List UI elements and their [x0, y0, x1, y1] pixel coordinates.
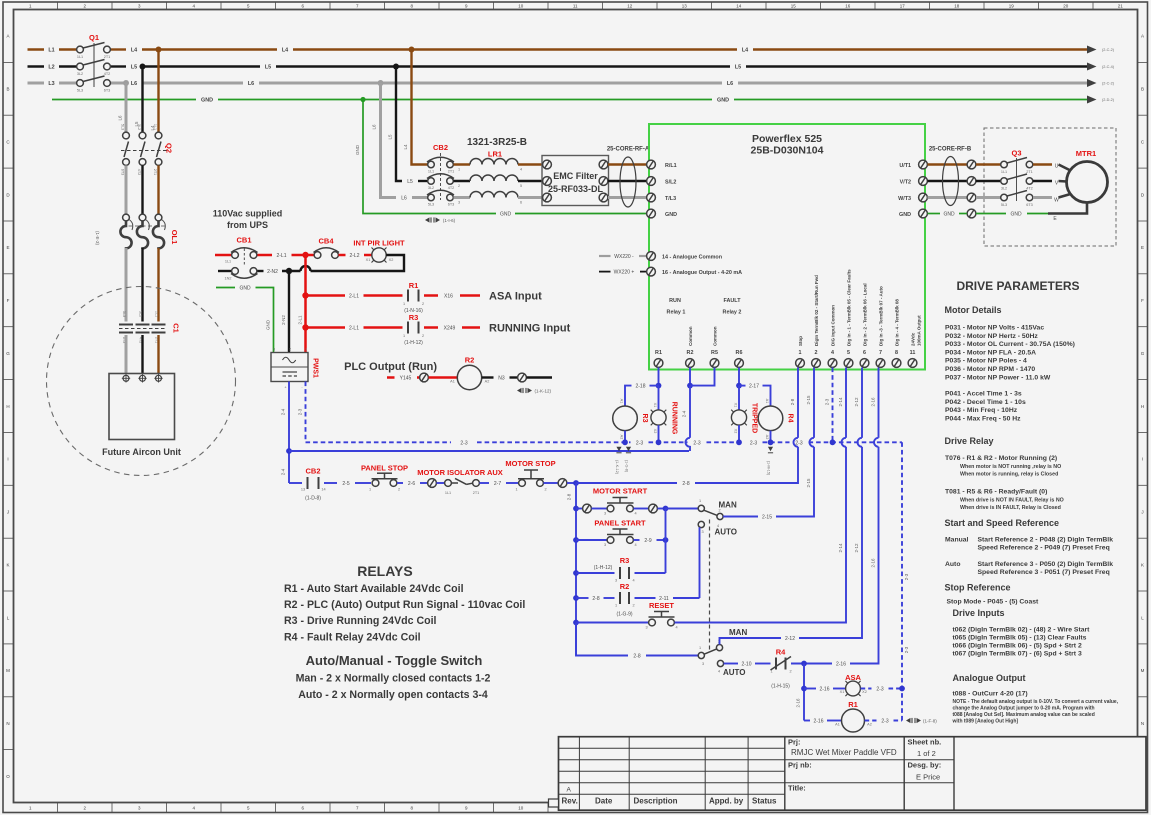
wire 2-15 to drive DigIn 02 — [723, 516, 758, 518]
pushbutton RESET — [576, 601, 678, 630]
svg-text:L5: L5 — [735, 65, 741, 71]
svg-text:X2: X2 — [862, 690, 867, 694]
svg-text:25-CORE-RF-B: 25-CORE-RF-B — [929, 147, 972, 153]
svg-text:RUNNING Input: RUNNING Input — [489, 323, 571, 335]
svg-text:Speed Reference 2 - P049 (7) P: Speed Reference 2 - P049 (7) Preset Freq — [978, 545, 1110, 552]
drive terminal R2 — [686, 326, 695, 367]
svg-text:P033 - Motor OL Current - 30.7: P033 - Motor OL Current - 30.75A (150%) — [945, 341, 1075, 348]
svg-text:L5: L5 — [407, 179, 413, 185]
svg-text:Future Aircon Unit: Future Aircon Unit — [102, 447, 181, 457]
terminal N3 — [518, 373, 527, 382]
svg-text:A: A — [567, 786, 572, 793]
pushbutton MOTOR START — [576, 487, 666, 516]
svg-text:R4 - Fault Relay 24Vdc Coil: R4 - Fault Relay 24Vdc Coil — [284, 632, 421, 644]
svg-text:(1-K-12): (1-K-12) — [615, 460, 619, 475]
svg-text:(2-C-2): (2-C-2) — [1102, 48, 1115, 52]
wire R3 coil to 2-3 — [624, 431, 626, 443]
svg-text:2-3: 2-3 — [795, 440, 802, 446]
svg-text:13: 13 — [682, 4, 688, 9]
svg-text:2-3: 2-3 — [881, 719, 888, 725]
wire 2-6 — [397, 482, 403, 484]
svg-text:4: 4 — [634, 512, 636, 516]
svg-text:X2: X2 — [734, 429, 738, 434]
svg-text:2: 2 — [289, 348, 291, 352]
svg-text:2-L1: 2-L1 — [276, 253, 286, 259]
svg-text:Q1: Q1 — [89, 33, 99, 42]
svg-text:7: 7 — [879, 350, 882, 356]
svg-text:T076 - R1 & R2 - Motor Running: T076 - R1 & R2 - Motor Running (2) — [945, 455, 1057, 462]
wire GND to PWS1 — [216, 287, 235, 289]
svg-text:H: H — [1141, 404, 1144, 409]
svg-text:2-16: 2-16 — [871, 397, 876, 407]
svg-text:3: 3 — [273, 348, 275, 352]
wire seal-in riser — [665, 509, 667, 574]
svg-text:25B-D030N104: 25B-D030N104 — [751, 145, 824, 157]
svg-text:16: 16 — [845, 4, 851, 9]
circuit breaker CB1 — [215, 236, 258, 281]
drive terminal 6 — [860, 283, 869, 367]
terminal Y145 — [420, 373, 429, 382]
wire OL1 to C1 brown — [157, 248, 159, 322]
svg-text:2-L1: 2-L1 — [298, 315, 303, 325]
svg-text:1L1: 1L1 — [445, 491, 451, 495]
svg-text:PANEL STOP: PANEL STOP — [361, 464, 408, 473]
svg-text:change the Analog Output jumpe: change the Analog Output jumper to 0-20 … — [953, 706, 1095, 712]
svg-text:P044 - Max Freq - 50 Hz: P044 - Max Freq - 50 Hz — [945, 415, 1021, 422]
svg-text:1: 1 — [770, 670, 772, 674]
svg-text:R3: R3 — [409, 313, 419, 322]
svg-text:2-12: 2-12 — [854, 397, 859, 407]
svg-text:R1: R1 — [409, 281, 419, 290]
svg-text:2-18: 2-18 — [635, 384, 645, 390]
lamp INT PIR LIGHT — [353, 239, 405, 263]
svg-text:X2: X2 — [653, 429, 657, 434]
wire LR1 to EMC row1 — [518, 163, 543, 165]
svg-text:WX220 +: WX220 + — [614, 270, 635, 276]
svg-text:Powerflex 525: Powerflex 525 — [752, 133, 822, 145]
svg-text:MAN: MAN — [719, 501, 737, 510]
svg-text:R1 - Auto Start Available 24Vd: R1 - Auto Start Available 24Vdc Coil — [284, 583, 464, 595]
svg-text:Sheet nb.: Sheet nb. — [908, 738, 942, 747]
svg-text:WX220 -: WX220 - — [614, 254, 634, 260]
svg-text:1L1: 1L1 — [1001, 170, 1007, 174]
wire Q3 to motor W — [1033, 196, 1052, 199]
wire drive R6 to node 2-17 — [738, 368, 740, 386]
svg-text:E: E — [6, 245, 9, 250]
svg-text:18: 18 — [954, 4, 960, 9]
svg-text:NOTE - The default analog outp: NOTE - The default analog output is 0-10… — [953, 699, 1119, 705]
svg-text:Prj nb:: Prj nb: — [788, 761, 812, 770]
svg-text:R1: R1 — [655, 350, 662, 356]
wire terminal to R2 coil — [429, 376, 458, 379]
svg-text:6: 6 — [863, 350, 866, 356]
off-page connector (1-F-8) — [906, 718, 937, 724]
wire 2-L2 — [339, 254, 346, 257]
wire Q2 to OL1 brown — [157, 165, 159, 214]
svg-text:AUTO: AUTO — [715, 528, 738, 537]
svg-text:3L2: 3L2 — [428, 186, 434, 190]
svg-text:2T1: 2T1 — [473, 491, 480, 495]
svg-text:2-6: 2-6 — [408, 481, 415, 487]
drive terminal R1 — [654, 350, 663, 367]
cable 25-CORE-RF-B — [929, 147, 972, 206]
svg-text:4: 4 — [520, 168, 522, 172]
circuit breaker CB2 aux contact — [289, 467, 326, 502]
circuit breaker CB2 (3-pole) — [427, 143, 460, 207]
svg-text:L6: L6 — [727, 81, 733, 87]
svg-text:Auto/Manual - Toggle Switch: Auto/Manual - Toggle Switch — [306, 653, 483, 668]
wire CB2 to LR1 row2 — [454, 180, 471, 182]
svg-text:M: M — [6, 668, 10, 673]
drive terminal 14 analogue common — [599, 252, 722, 261]
svg-text:A1: A1 — [620, 399, 624, 404]
svg-text:3: 3 — [702, 662, 704, 666]
svg-text:RELAYS: RELAYS — [357, 563, 413, 579]
relay contact R3 (RUNNING) — [403, 313, 424, 346]
svg-text:R2 - PLC (Auto) Output Run Sig: R2 - PLC (Auto) Output Run Signal - 110v… — [284, 599, 525, 611]
svg-text:OL1: OL1 — [170, 230, 179, 245]
svg-text:A2: A2 — [867, 723, 872, 727]
svg-text:5L3: 5L3 — [428, 203, 434, 207]
svg-text:2-16: 2-16 — [796, 698, 801, 708]
svg-text:FAULT: FAULT — [724, 298, 742, 304]
wire L6 drop to Q2 — [125, 83, 128, 132]
svg-text:P034 - Motor NP FLA - 20.5A: P034 - Motor NP FLA - 20.5A — [945, 349, 1036, 356]
svg-text:J: J — [1141, 510, 1143, 515]
wire L4 drop to CB2 — [412, 50, 428, 165]
svg-text:A2: A2 — [765, 435, 769, 440]
wire PWS1 - common dashed (2-3) — [306, 382, 452, 443]
svg-text:(1-H-15): (1-H-15) — [771, 684, 790, 690]
svg-text:L6: L6 — [131, 81, 137, 87]
svg-text:2-16: 2-16 — [836, 662, 846, 668]
svg-text:2: 2 — [789, 670, 791, 674]
wire L5 drop to Q2 — [141, 67, 143, 133]
svg-text:F: F — [1141, 298, 1144, 303]
svg-text:G: G — [6, 351, 10, 356]
svg-text:2: 2 — [458, 184, 460, 188]
svg-text:2-3: 2-3 — [876, 687, 883, 693]
wire CB2 to LR1 row1 — [454, 163, 471, 165]
svg-text:14: 14 — [321, 488, 325, 492]
svg-text:Common: Common — [688, 326, 693, 346]
svg-text:2-5: 2-5 — [342, 481, 349, 487]
toggle switch MAN/AUTO lower — [698, 628, 747, 677]
svg-text:1: 1 — [458, 168, 460, 172]
svg-text:t062 (DigIn TermBlk 02) - (48): t062 (DigIn TermBlk 02) - (48) 2 - Wire … — [953, 627, 1091, 634]
svg-text:Q3: Q3 — [1011, 149, 1021, 158]
svg-text:110Vac supplied: 110Vac supplied — [213, 209, 283, 219]
toggle switch MAN/AUTO upper — [698, 499, 737, 650]
svg-text:Prj:: Prj: — [788, 738, 801, 747]
svg-text:CB4: CB4 — [318, 237, 334, 246]
svg-text:2-8: 2-8 — [567, 493, 572, 500]
svg-text:When drive is IN FAULT, Relay: When drive is IN FAULT, Relay is Closed — [960, 505, 1061, 511]
svg-text:R4: R4 — [787, 414, 794, 423]
svg-text:(1-E-3): (1-E-3) — [95, 231, 100, 246]
svg-text:Stop Reference: Stop Reference — [945, 583, 1011, 593]
svg-text:CB2: CB2 — [305, 467, 320, 476]
switch MOTOR ISOLATOR AUX — [417, 468, 503, 495]
svg-text:Dig In - 2 - TermBlk 06 - Loca: Dig In - 2 - TermBlk 06 - Local — [863, 283, 868, 346]
svg-text:U: U — [1055, 164, 1059, 170]
svg-text:14 - Analogue Common: 14 - Analogue Common — [662, 255, 722, 261]
svg-text:25-CORE-RF-A: 25-CORE-RF-A — [607, 147, 650, 153]
relay coil R4 — [758, 399, 793, 440]
svg-text:Start Reference 2 - P048 (2) D: Start Reference 2 - P048 (2) DigIn TermB… — [978, 537, 1114, 544]
wire 2-8 to drive Stop — [576, 482, 677, 484]
svg-text:2: 2 — [632, 604, 634, 608]
svg-text:GND: GND — [899, 212, 911, 218]
svg-text:1: 1 — [403, 334, 405, 338]
svg-text:(1-G-9): (1-G-9) — [616, 612, 632, 618]
svg-text:X1: X1 — [734, 403, 738, 408]
svg-text:DRIVE PARAMETERS: DRIVE PARAMETERS — [956, 279, 1079, 293]
wire to Q3 pole1 — [976, 163, 1001, 165]
svg-text:I: I — [1142, 457, 1143, 462]
wire GND drive to field terminal — [928, 213, 941, 215]
svg-text:(1-G-8): (1-G-8) — [625, 460, 629, 473]
svg-text:2-12: 2-12 — [785, 636, 795, 642]
svg-text:2-8: 2-8 — [633, 654, 640, 660]
svg-text:C1: C1 — [172, 323, 181, 333]
svg-text:P036 - Motor NP RPM - 1470: P036 - Motor NP RPM - 1470 — [945, 366, 1035, 373]
svg-text:5: 5 — [847, 350, 850, 356]
svg-text:GND: GND — [665, 212, 677, 218]
svg-text:W: W — [1054, 198, 1059, 204]
svg-text:P042 - Decel Time 1 - 10s: P042 - Decel Time 1 - 10s — [945, 399, 1026, 406]
svg-text:R4: R4 — [776, 648, 786, 657]
svg-text:R2: R2 — [620, 582, 630, 591]
off-page connectors (1-K-12)(1-G-8) — [615, 447, 631, 475]
svg-text:19: 19 — [1009, 4, 1015, 9]
svg-text:Start Reference 3 - P050 (2) D: Start Reference 3 - P050 (2) DigIn TermB… — [978, 561, 1114, 568]
wire EMC to drive T/L3 — [608, 196, 647, 199]
svg-text:2-9: 2-9 — [644, 538, 651, 544]
svg-text:J: J — [7, 510, 9, 515]
svg-text:2: 2 — [422, 334, 424, 338]
svg-text:N: N — [1141, 721, 1144, 726]
svg-text:T081 - R5 & R6 - Ready/Fault (: T081 - R5 & R6 - Ready/Fault (0) — [945, 489, 1047, 496]
svg-text:R1: R1 — [848, 700, 858, 709]
svg-text:When drive is NOT IN FAULT, Re: When drive is NOT IN FAULT, Relay is NO — [960, 497, 1064, 503]
svg-text:Motor Details: Motor Details — [945, 305, 1002, 315]
svg-text:2-3: 2-3 — [904, 573, 909, 580]
svg-text:5L3: 5L3 — [1001, 203, 1007, 207]
svg-text:10: 10 — [518, 806, 524, 811]
relay coil R2 — [450, 356, 489, 390]
svg-text:RUN: RUN — [669, 298, 681, 304]
svg-text:2-7: 2-7 — [494, 481, 501, 487]
drive terminal V/T2 — [900, 177, 928, 186]
svg-text:R3: R3 — [641, 414, 648, 423]
svg-text:3: 3 — [604, 543, 606, 547]
wire C1 to unit brown — [157, 335, 159, 375]
svg-text:PANEL START: PANEL START — [594, 519, 646, 528]
svg-text:3L2: 3L2 — [139, 311, 143, 317]
svg-text:A2: A2 — [620, 435, 624, 440]
svg-text:X1: X1 — [366, 258, 371, 262]
drive terminal R5 — [710, 326, 719, 367]
svg-text:4: 4 — [632, 579, 634, 583]
svg-text:2-10: 2-10 — [741, 662, 751, 668]
svg-text:Relay 2: Relay 2 — [723, 310, 742, 316]
svg-text:Stop: Stop — [798, 336, 803, 346]
svg-text:24Vdc: 24Vdc — [911, 332, 916, 346]
relay contact R4 NC — [770, 648, 791, 690]
svg-text:Auto - 2 x Normally open conta: Auto - 2 x Normally open contacts 3-4 — [298, 689, 488, 701]
drive terminal 2 — [812, 275, 821, 368]
svg-text:2-16: 2-16 — [813, 719, 823, 725]
svg-text:6T3: 6T3 — [104, 89, 111, 93]
svg-text:Relay 1: Relay 1 — [667, 310, 686, 316]
svg-text:R5: R5 — [711, 350, 718, 356]
svg-text:3L2: 3L2 — [1001, 187, 1007, 191]
svg-text:16 - Analogue Output - 4-20 mA: 16 - Analogue Output - 4-20 mA — [662, 270, 742, 276]
wire OL1 to C1 gray — [125, 248, 128, 322]
svg-text:L5: L5 — [388, 134, 393, 140]
svg-text:Drive Inputs: Drive Inputs — [953, 608, 1005, 618]
svg-text:(1-I-6): (1-I-6) — [443, 218, 456, 223]
svg-text:T/L3: T/L3 — [665, 196, 676, 202]
svg-text:Analogue Output: Analogue Output — [953, 673, 1026, 683]
svg-text:X1: X1 — [840, 690, 845, 694]
svg-text:GND: GND — [1010, 212, 1022, 218]
contactor Q2 — [121, 124, 174, 175]
pushbutton PANEL STOP — [361, 464, 408, 492]
svg-text:GND: GND — [943, 212, 955, 218]
svg-text:E: E — [1141, 245, 1144, 250]
svg-text:P032 - Motor NP Hertz - 50Hz: P032 - Motor NP Hertz - 50Hz — [945, 333, 1038, 340]
svg-text:2: 2 — [815, 350, 818, 356]
wire 2-L1 drop to PWS1 — [304, 255, 307, 353]
svg-text:4: 4 — [831, 350, 834, 356]
svg-text:ASA Input: ASA Input — [489, 291, 542, 303]
svg-text:3: 3 — [604, 512, 606, 516]
svg-text:P031 - Motor NP Volts - 415Vac: P031 - Motor NP Volts - 415Vac — [945, 325, 1044, 332]
svg-text:R3: R3 — [620, 556, 630, 565]
svg-text:25-RF033-DL: 25-RF033-DL — [548, 184, 604, 194]
svg-text:GND: GND — [500, 212, 512, 218]
svg-text:L1: L1 — [48, 48, 54, 54]
svg-text:12: 12 — [627, 4, 633, 9]
svg-text:2-4: 2-4 — [281, 468, 286, 475]
svg-text:Stop Mode - P045 - (5) Coast: Stop Mode - P045 - (5) Coast — [947, 599, 1040, 606]
field terminal E — [967, 209, 976, 218]
svg-text:P037 - Motor NP Power - 11.0 k: P037 - Motor NP Power - 11.0 kW — [945, 374, 1051, 381]
svg-text:L3: L3 — [48, 81, 54, 87]
wire Q2 to OL1 gray — [125, 165, 128, 214]
svg-text:4: 4 — [675, 626, 677, 630]
svg-text:21: 21 — [1118, 4, 1124, 9]
svg-text:Dig In - 4 - TermBlk 08: Dig In - 4 - TermBlk 08 — [895, 299, 900, 346]
cable 25-CORE-RF-A — [607, 147, 650, 208]
svg-text:2T1: 2T1 — [1026, 170, 1033, 174]
drive terminal 16 analogue output — [599, 267, 742, 276]
svg-text:2-8: 2-8 — [682, 481, 689, 487]
svg-text:1L1: 1L1 — [77, 55, 83, 59]
svg-text:2-14: 2-14 — [838, 543, 843, 553]
drive terminal T/L3 — [647, 193, 676, 202]
drive terminal R6 — [735, 350, 744, 367]
svg-text:Description: Description — [634, 797, 678, 806]
svg-text:2: 2 — [398, 488, 400, 492]
svg-text:2-16: 2-16 — [871, 558, 876, 568]
drive terminal 8 — [892, 299, 901, 368]
svg-text:2-L2: 2-L2 — [349, 253, 359, 259]
svg-text:1N2: 1N2 — [225, 277, 232, 281]
svg-text:CB1: CB1 — [236, 236, 251, 245]
wire 2-4 24Vdc rail — [289, 450, 689, 452]
svg-text:4T2: 4T2 — [104, 72, 111, 76]
wire Y145 stub — [387, 376, 395, 379]
drive terminal 4 — [828, 305, 837, 368]
svg-text:X249: X249 — [444, 326, 456, 332]
wire 2-10 — [724, 663, 738, 665]
wire 2-3 dashed down right side — [901, 442, 903, 720]
text block DRIVE PARAMETERS — [945, 279, 1119, 725]
svg-text:X2: X2 — [389, 258, 394, 262]
revision tag box — [549, 799, 559, 807]
drive terminal U/T1 — [899, 160, 927, 169]
wire drive R2 R5 to 2-4 rail — [689, 368, 691, 386]
svg-text:L6: L6 — [372, 124, 377, 130]
svg-text:(1-K-12): (1-K-12) — [535, 389, 552, 394]
svg-text:H: H — [6, 404, 9, 409]
svg-text:1L1: 1L1 — [225, 260, 231, 264]
svg-text:2-3: 2-3 — [460, 440, 467, 446]
svg-text:RMJC Wet Mixer Paddle VFD: RMJC Wet Mixer Paddle VFD — [791, 748, 897, 757]
svg-text:P041 - Accel Time 1 - 3s: P041 - Accel Time 1 - 3s — [945, 391, 1022, 398]
svg-text:2T1: 2T1 — [153, 169, 157, 176]
drive terminal S/L2 — [647, 177, 677, 186]
pushbutton MOTOR STOP — [505, 459, 555, 492]
wire V/T2 to terminal — [928, 180, 968, 182]
svg-text:1L1: 1L1 — [153, 124, 157, 130]
svg-text:t067 (DigIn TermBlk 07) - (6): t067 (DigIn TermBlk 07) - (6) Spd + Strt… — [953, 651, 1082, 658]
svg-text:Rev.: Rev. — [562, 797, 578, 806]
relay coil R3 — [613, 399, 648, 440]
wire 2-L1 — [258, 254, 273, 257]
svg-text:DigIn TermBlk 02 - Start/Run F: DigIn TermBlk 02 - Start/Run Fwd — [814, 275, 819, 346]
wire 2-5 — [324, 482, 337, 484]
svg-text:A2: A2 — [485, 380, 490, 384]
svg-text:A1: A1 — [765, 399, 769, 404]
isolator switch Q3 — [1001, 149, 1033, 208]
svg-text:When motor is NOT running ,rel: When motor is NOT running ,relay is NO — [960, 464, 1061, 470]
drive terminal W/T3 — [898, 193, 927, 202]
svg-text:Man - 2 x Normally closed cont: Man - 2 x Normally closed contacts 1-2 — [296, 673, 491, 685]
svg-text:PLC Output (Run): PLC Output (Run) — [344, 361, 437, 373]
drive terminal GND output — [899, 209, 927, 218]
svg-text:R2: R2 — [687, 350, 694, 356]
svg-text:GND: GND — [266, 319, 271, 330]
svg-text:INT PIR LIGHT: INT PIR LIGHT — [353, 239, 405, 248]
svg-text:4: 4 — [718, 670, 720, 674]
svg-text:GND: GND — [717, 98, 729, 104]
svg-text:t088 [Analog Out Sel]. Maximum: t088 [Analog Out Sel]. Maximum analog va… — [953, 712, 1095, 718]
wire to Q3 pole3 — [976, 196, 1001, 199]
off-page connector (1-M-15) — [767, 447, 774, 476]
wire L2 rail — [28, 63, 1115, 71]
wire C1 to unit black — [141, 335, 143, 375]
svg-text:Desg. by:: Desg. by: — [908, 761, 942, 770]
svg-text:4T2: 4T2 — [1026, 187, 1033, 191]
svg-text:Status: Status — [752, 797, 777, 806]
svg-text:(2-C-4): (2-C-4) — [1102, 65, 1115, 69]
dashed machine enclosure box — [984, 128, 1116, 246]
svg-text:LR1: LR1 — [488, 150, 502, 159]
